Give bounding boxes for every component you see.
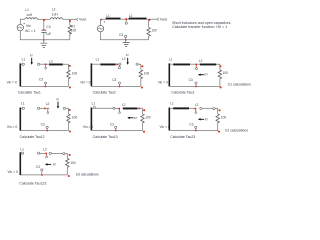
svg-text:AC = 1: AC = 1: [25, 29, 36, 33]
svg-text:C3: C3: [112, 78, 116, 82]
svg-text:Vin = 0: Vin = 0: [160, 125, 170, 129]
svg-text:100: 100: [145, 116, 151, 120]
svg-text:Calculate Tau123: Calculate Tau123: [19, 181, 46, 185]
svg-text:C3: C3: [189, 78, 193, 82]
svg-text:100: 100: [221, 115, 227, 119]
svg-text:L2: L2: [129, 14, 133, 18]
svg-text:100: 100: [144, 71, 150, 75]
svg-text:R7: R7: [205, 117, 209, 121]
svg-text:L2: L2: [199, 59, 203, 63]
svg-text:L1: L1: [22, 57, 26, 61]
svg-text:Vin = 0: Vin = 0: [7, 125, 17, 129]
svg-text:1uH: 1uH: [52, 13, 59, 17]
svg-text:Calculate Tau12: Calculate Tau12: [20, 135, 45, 139]
svg-text:Calculate Tau3: Calculate Tau3: [171, 91, 194, 95]
svg-text:C3: C3: [41, 123, 45, 127]
svg-text:R7: R7: [205, 73, 209, 77]
svg-text:b3 calculations: b3 calculations: [76, 173, 99, 177]
svg-text:100: 100: [71, 29, 77, 33]
svg-text:Vout: Vout: [160, 18, 167, 22]
svg-text:C3: C3: [110, 123, 114, 127]
svg-text:L2: L2: [195, 103, 199, 107]
svg-text:Vin = 0: Vin = 0: [83, 125, 93, 129]
svg-text:C3: C3: [39, 78, 43, 82]
svg-text:Calculate Tau23: Calculate Tau23: [170, 135, 195, 139]
svg-text:L2: L2: [122, 103, 126, 107]
svg-text:Vin: Vin: [26, 24, 31, 28]
svg-text:L2: L2: [122, 57, 126, 61]
svg-text:L1: L1: [106, 14, 110, 18]
svg-text:Calculate Tau2: Calculate Tau2: [93, 91, 116, 95]
svg-text:b1 calculations: b1 calculations: [228, 82, 251, 86]
svg-text:Calculate transfer function: H: Calculate transfer function: H0 = 1: [172, 25, 227, 29]
svg-text:Vin = 0: Vin = 0: [8, 170, 18, 174]
svg-text:Vin = 0: Vin = 0: [158, 81, 168, 85]
svg-text:L1: L1: [21, 102, 25, 106]
svg-text:L1: L1: [20, 148, 24, 152]
svg-text:Vin = 0: Vin = 0: [80, 81, 90, 85]
svg-text:Vout: Vout: [79, 18, 86, 22]
svg-text:C3: C3: [36, 165, 40, 169]
svg-text:L2: L2: [43, 147, 47, 151]
svg-text:L1: L1: [96, 58, 100, 62]
svg-text:100: 100: [151, 28, 157, 32]
svg-text:100: 100: [72, 116, 78, 120]
svg-text:Calculate Tau13: Calculate Tau13: [93, 135, 118, 139]
svg-text:100: 100: [222, 71, 228, 75]
svg-text:L2: L2: [49, 60, 53, 64]
svg-text:Short inductors and open capac: Short inductors and open capacitors.: [172, 21, 231, 25]
svg-text:Vin = 0: Vin = 0: [7, 81, 17, 85]
svg-text:L2: L2: [52, 8, 56, 12]
svg-text:L2: L2: [46, 102, 50, 106]
svg-text:L1: L1: [25, 8, 29, 12]
svg-text:C3: C3: [189, 123, 193, 127]
svg-text:100: 100: [72, 71, 78, 75]
svg-text:L1: L1: [92, 102, 96, 106]
svg-text:R7: R7: [53, 163, 57, 167]
svg-text:C3: C3: [46, 25, 50, 29]
svg-text:L1: L1: [170, 102, 174, 106]
svg-text:C3: C3: [119, 33, 123, 37]
svg-text:L1: L1: [169, 57, 173, 61]
svg-text:Calculate Tau1: Calculate Tau1: [18, 91, 41, 95]
svg-text:b2 calculations: b2 calculations: [225, 129, 248, 133]
svg-text:1uH: 1uH: [26, 13, 33, 17]
svg-text:100: 100: [70, 161, 76, 165]
svg-text:R7: R7: [134, 116, 138, 120]
svg-text:1uF: 1uF: [46, 32, 52, 36]
